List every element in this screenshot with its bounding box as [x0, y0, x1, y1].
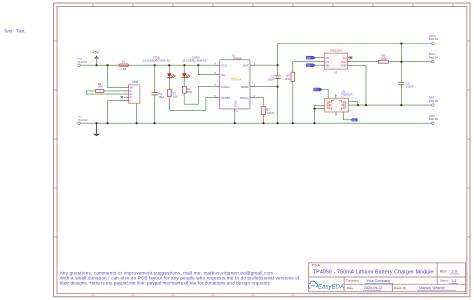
svg-text:Pad 06: Pad 06: [429, 117, 439, 121]
net pad BAT-: [432, 104, 435, 107]
resistor R5: [291, 72, 295, 81]
junction Q1 / bottom rail: [313, 122, 315, 124]
net pad In-: [78, 122, 81, 125]
svg-text:Date:: Date:: [347, 286, 354, 290]
wire Q1 gate G2 to OD label: [343, 112, 351, 120]
svg-text:G: G: [130, 100, 132, 103]
IC U2 DW01A-G: [324, 53, 347, 69]
junction LED D2 / IN+ rail: [168, 64, 170, 66]
svg-text:Your Company: Your Company: [367, 279, 391, 283]
svg-text:Pad 01: Pad 01: [78, 60, 88, 64]
wire PROG to R3: [253, 98, 264, 124]
wire USB shield to bottom rail: [136, 103, 138, 123]
net pad OUT-: [432, 122, 435, 125]
junction R5 / bottom rail: [292, 122, 294, 124]
svg-text:Markus Virtanen: Markus Virtanen: [419, 286, 445, 290]
wire IN+ rail: [80, 64, 216, 66]
junction CE / IN+ rail: [197, 64, 199, 66]
svg-text:Company:: Company:: [346, 279, 360, 283]
svg-text:STDBY: STDBY: [221, 96, 231, 100]
wire D- through R4 and U-turn to D+: [86, 91, 124, 94]
svg-text:Text: Text: [4, 29, 13, 34]
junction BAT pin / C2 / OUT+ riser: [277, 64, 279, 66]
svg-text:1/1: 1/1: [452, 279, 457, 283]
net port OD: [306, 64, 315, 67]
svg-text:OD: OD: [353, 120, 357, 122]
svg-text:their designs. Here is my payp: their designs. Here is my paypal.me link…: [60, 281, 271, 286]
wire U2 VCC through R6 to B+: [350, 61, 401, 63]
svg-text:GND: GND: [341, 64, 347, 68]
junction Q1 right pins / B- rail: [357, 104, 359, 106]
svg-text:OC: OC: [307, 57, 311, 60]
junction C3 / B- rail: [400, 104, 402, 106]
net label OD at Q1 G2: [351, 118, 357, 121]
EasyEDA logo: [308, 281, 344, 291]
svg-text:750mA: 750mA: [231, 78, 242, 82]
svg-text:CE: CE: [221, 73, 225, 77]
svg-text:U2: U2: [334, 71, 338, 75]
svg-text:TD: TD: [343, 56, 347, 60]
frame ruler ticks top: [93, 3, 453, 7]
junction TEMP / C2 branch: [277, 86, 279, 88]
wire CE tie to VCC rail: [198, 65, 216, 75]
junction U1 GND / bottom rail: [234, 122, 236, 124]
junction C2 / bottom rail: [277, 122, 279, 124]
frame ruler ticks bottom: [93, 294, 293, 297]
Q1 unconnected bottom pin: [335, 112, 337, 115]
Q1 unconnected top pin: [335, 95, 337, 98]
LED D3 CHRG: [182, 73, 187, 77]
svg-text:CS: CS: [325, 60, 329, 64]
svg-text:200: 200: [98, 85, 103, 89]
svg-text:1KΩ: 1KΩ: [187, 90, 193, 94]
svg-text:TP4056 - 750mA Lithium Battery: TP4056 - 750mA Lithium Battery Charger M…: [313, 269, 434, 275]
svg-text:CHRG: CHRG: [221, 85, 230, 89]
svg-text:DW01A-G: DW01A-G: [330, 48, 342, 52]
junction USB shield / bottom rail: [136, 122, 138, 124]
svg-text:F1: F1: [122, 59, 126, 63]
donation note paragraph: [60, 271, 300, 286]
LED D2 STDB branch wires: [169, 65, 216, 110]
wire BAT+ pad: [401, 61, 431, 63]
junction Q1 left pins: [313, 108, 315, 110]
svg-text:Pad 05: Pad 05: [429, 99, 439, 103]
title block box: [309, 263, 466, 292]
svg-text:OC: OC: [325, 56, 329, 60]
svg-text:TITLE:: TITLE:: [311, 263, 320, 267]
capacitor C3: [399, 82, 405, 85]
wire Q1 gate G1: [322, 90, 328, 99]
svg-text:TEMP: TEMP: [240, 85, 248, 89]
svg-text:GND: GND: [233, 101, 237, 107]
svg-text:Sheet:: Sheet:: [440, 279, 449, 283]
svg-text:TP4056: TP4056: [232, 56, 242, 60]
svg-text:Drawn By:: Drawn By:: [394, 286, 408, 290]
wire TEMP pin to C2 branch: [253, 86, 278, 88]
wire Q1 left pins to OUT- rail: [314, 105, 324, 123]
svg-text:Pad 02: Pad 02: [78, 118, 88, 122]
junction USB VB / IN+ rail: [106, 64, 108, 66]
svg-text:USB: USB: [132, 80, 138, 84]
svg-text:VCC: VCC: [221, 63, 228, 67]
svg-text:1.5A: 1.5A: [121, 67, 127, 71]
junction ground / bottom rail: [95, 122, 97, 124]
junction LED D3 / IN+ rail: [183, 64, 185, 66]
svg-text:Pad 03: Pad 03: [429, 37, 439, 41]
svg-text:BAT: BAT: [243, 63, 249, 67]
wire Q1 right pins to B- rail: [349, 101, 432, 105]
svg-text:16-213UBC-AN/PG37: 16-213UBC-AN/PG37: [182, 59, 208, 63]
junction R6 / BAT+ / B+ riser: [400, 61, 402, 63]
wire U2 GND down to B- rail: [350, 65, 366, 105]
svg-text:PROG: PROG: [240, 96, 250, 100]
svg-text:1.6KΩ: 1.6KΩ: [266, 111, 274, 115]
junction C1 / bottom rail: [154, 122, 156, 124]
svg-text:OD: OD: [325, 63, 329, 67]
svg-text:OC: OC: [314, 89, 318, 92]
resistor R2: [183, 86, 187, 93]
net pad In+: [78, 64, 81, 67]
no-connect flag U2 TD pin: [350, 57, 352, 59]
resistor R3: [262, 106, 266, 114]
frame ruler ticks right: [467, 41, 470, 237]
svg-text:VCC: VCC: [341, 60, 347, 64]
net pad BAT+: [432, 60, 435, 63]
capacitor C1 branch wires: [154, 65, 156, 123]
svg-text:100Ω: 100Ω: [381, 56, 388, 60]
junction U2 GND / B- rail: [365, 104, 367, 106]
LED D3 CHRG branch wires: [184, 65, 216, 104]
connector USB: [129, 85, 140, 103]
junction USB G / bottom rail: [106, 122, 108, 124]
ground symbol: [96, 123, 98, 134]
svg-text:2020-09-22: 2020-09-22: [364, 286, 382, 290]
capacitor C2 branch wires: [277, 65, 279, 123]
svg-text:REV :: REV :: [440, 269, 449, 273]
svg-text:FS8205A: FS8205A: [341, 92, 352, 96]
junction +5V / IN+ rail: [95, 64, 97, 66]
svg-text:16-213/SDRC/S530-A3: 16-213/SDRC/S530-A3: [143, 59, 171, 63]
junction C1 / IN+ rail: [154, 64, 156, 66]
capacitor C1: [152, 92, 158, 95]
frame ruler ticks left: [54, 41, 58, 237]
svg-text:10uF: 10uF: [268, 78, 275, 82]
net pad OUT+: [432, 42, 435, 45]
net port OC at Q1 gate: [314, 88, 322, 91]
IC U1 TP4056: [219, 60, 250, 109]
svg-text:EasyEDA: EasyEDA: [318, 284, 344, 291]
transistor Q1 FS8205A: [324, 98, 348, 112]
wire BAT pin to OUT+ rail: [253, 44, 433, 66]
fuse F1: [119, 64, 129, 66]
junction R3 / bottom rail: [262, 122, 264, 124]
wire CS to R5: [293, 62, 322, 123]
no-connect flag USB ID pin: [121, 96, 123, 98]
resistor R1: [168, 89, 172, 97]
svg-text:Pad 04: Pad 04: [429, 55, 439, 59]
wire bottom rail In- to OUT-: [80, 122, 432, 124]
wire B+ vertical with C3: [400, 44, 402, 106]
capacitor C2: [275, 76, 281, 79]
svg-text:1KΩ: 1KΩ: [284, 77, 290, 81]
svg-text:10uF: 10uF: [158, 95, 165, 99]
wire U1 GND pin to bottom rail: [234, 112, 236, 123]
svg-text:OD: OD: [307, 64, 311, 67]
junction OUT+ rail / B+ riser: [400, 42, 402, 44]
wire USB G to bottom rail: [108, 101, 125, 124]
power flag +5V: [96, 57, 98, 65]
wire USB VB from rail: [108, 65, 125, 88]
svg-text:+5V: +5V: [93, 51, 100, 55]
svg-text:Text: Text: [16, 29, 25, 34]
svg-text:1KΩ: 1KΩ: [173, 95, 179, 99]
svg-text:100nF: 100nF: [406, 85, 414, 89]
resistor R6: [378, 60, 388, 63]
net port OC: [306, 56, 315, 59]
svg-text:2.0: 2.0: [452, 269, 458, 274]
LED D2 STDB: [167, 73, 172, 77]
resistor R4: [96, 90, 104, 93]
